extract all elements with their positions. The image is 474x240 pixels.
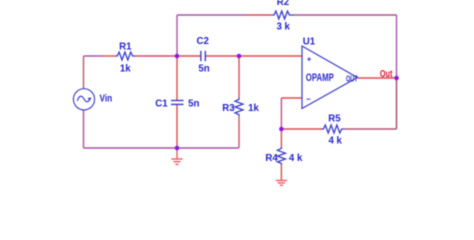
node A junction dot	[175, 54, 180, 59]
svg-text:R5: R5	[328, 113, 341, 124]
junction dot output node	[394, 76, 399, 81]
wire: R1 right to node A	[136, 55, 177, 57]
wire: node B down to R3 top	[238, 56, 240, 98]
svg-text:R3: R3	[222, 103, 235, 114]
wire: node A up to top feedback rail	[176, 15, 178, 56]
wire: top rail right of R2	[294, 14, 397, 16]
svg-text:5n: 5n	[188, 98, 199, 109]
resistor R5	[322, 125, 345, 133]
svg-text:R2: R2	[277, 0, 289, 8]
svg-text:U1: U1	[303, 36, 316, 47]
wire: top rail left of R2	[177, 14, 246, 16]
wire: to op-amp - input	[281, 97, 302, 99]
wire: R5 left to feedback node	[281, 128, 321, 130]
svg-text:4 k: 4 k	[328, 135, 342, 146]
wire: vertical Vin upper stub	[83, 56, 85, 89]
resistor R4	[277, 147, 285, 165]
junction dot rail/ground	[175, 146, 180, 151]
wire: out node down to R5 level	[396, 78, 398, 129]
capacitor C1	[171, 101, 184, 105]
wire: vertical Vin lower stub	[83, 110, 85, 148]
wire: Vin top corner to R1 left	[84, 55, 104, 57]
svg-text:4 k: 4 k	[289, 153, 303, 164]
wire: node B to op-amp + input	[239, 55, 302, 57]
wire: op-amp output to out node	[358, 77, 397, 79]
svg-text:R4: R4	[265, 153, 278, 164]
op-amp U1	[302, 46, 357, 109]
wire: R5 right lead	[344, 128, 396, 130]
wire: feedback node down to R4 top	[280, 129, 282, 147]
ground: under bottom rail	[171, 148, 182, 164]
wire: feedback node up	[280, 98, 282, 129]
svg-text:C2: C2	[197, 36, 209, 47]
capacitor C2	[201, 51, 205, 61]
resistor R2	[272, 11, 294, 19]
resistor R3	[235, 98, 243, 117]
wire: R3 bottom to rail	[238, 116, 240, 148]
wire: C2 right plate to node B	[205, 55, 239, 57]
wire: node A down to C1 top plate	[176, 56, 178, 101]
wire: bottom ground rail	[84, 147, 240, 149]
wire: C1 bottom plate to rail	[176, 104, 178, 148]
wire: node A to C2 left plate	[177, 55, 201, 57]
svg-text:R1: R1	[119, 41, 132, 52]
svg-text:1k: 1k	[120, 63, 131, 74]
source Vin	[73, 89, 94, 110]
resistor R1	[116, 52, 136, 60]
svg-text:Out: Out	[380, 69, 393, 80]
svg-text:C1: C1	[155, 98, 168, 109]
svg-text:OUT: OUT	[346, 74, 358, 83]
svg-text:1k: 1k	[248, 103, 259, 114]
wire: right vertical down to out node	[396, 15, 398, 78]
svg-text:5n: 5n	[198, 63, 209, 74]
node B junction dot	[237, 54, 242, 59]
junction dot feedback node	[279, 127, 284, 132]
ground: under R4	[276, 181, 287, 186]
svg-text:OPAMP: OPAMP	[306, 72, 334, 84]
svg-text:3 k: 3 k	[276, 21, 290, 32]
wire: R4 bottom stub to ground	[280, 165, 282, 181]
svg-text:Vin: Vin	[100, 94, 113, 105]
